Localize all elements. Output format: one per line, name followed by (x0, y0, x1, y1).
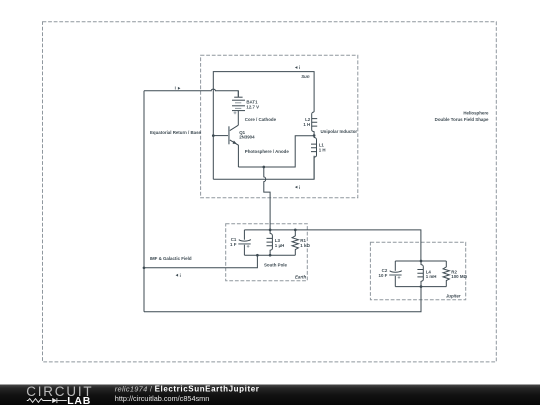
node: IMF tap junction (143, 266, 146, 269)
svg-text:relic1974 / ElectricSunEarthJu: relic1974 / ElectricSunEarthJupiter (115, 384, 260, 393)
wire: left tall return (143, 91, 145, 312)
wire: base feed (213, 135, 228, 137)
wire: IMF & galactic field (144, 255, 257, 268)
wire: bottom loop to Jupiter (144, 287, 421, 312)
wire: top external with hop over sun loop (144, 89, 238, 97)
node: jupiter top junction (420, 260, 423, 263)
inductor L3 (267, 230, 285, 255)
wire: sun loop bottom (213, 156, 314, 180)
svg-text:2N3904: 2N3904 (239, 135, 255, 140)
logo resistor-diode glyph (27, 398, 67, 403)
svg-text:Sun: Sun (301, 74, 310, 79)
svg-text:1 μH: 1 μH (275, 243, 285, 248)
node: unipolar tap junction (313, 134, 316, 137)
svg-text:i: i (180, 273, 181, 278)
svg-text:i: i (299, 185, 300, 190)
node: earth top incoming junction (269, 229, 272, 232)
node: anode branch junction (262, 166, 265, 169)
Earth dashed box (226, 224, 308, 281)
Earth bottom rail (244, 254, 295, 256)
wire: sun loop left+top+right (213, 72, 314, 180)
svg-text:IMF & Galactic Field: IMF & Galactic Field (150, 256, 192, 261)
svg-text:Jupiter: Jupiter (446, 293, 461, 298)
svg-text:Equatorial Return / Base: Equatorial Return / Base (150, 130, 202, 135)
svg-text:Heliosphere: Heliosphere (463, 111, 489, 116)
svg-text:10 F: 10 F (379, 273, 388, 278)
resistor R1 (292, 230, 310, 255)
Jupiter top rail (395, 260, 446, 262)
transistor Q1 2N3904 (229, 125, 255, 167)
node: jupiter bottom junction (420, 285, 423, 288)
svg-text:South Pole: South Pole (264, 263, 287, 268)
wire: photosphere/anode run to unipolar tap (238, 136, 313, 167)
resistor R2 (443, 261, 467, 287)
inductor L1 (311, 136, 326, 180)
label: < i current arrow sun bottom (295, 185, 300, 190)
svg-text:i: i (175, 86, 176, 91)
inductor L4 (417, 261, 436, 287)
node: earth bottom IMF junction (256, 254, 259, 257)
node: base junction (212, 134, 215, 137)
node: earth bottom L3 junction (269, 254, 272, 257)
svg-text:Unipolar Inductor: Unipolar Inductor (321, 129, 358, 134)
node: earth top R1 junction (294, 229, 297, 232)
label: i > current arrow top (175, 86, 181, 91)
label: < i current arrow sun top (295, 65, 300, 70)
svg-text:1 H: 1 H (303, 122, 310, 127)
label: < i current arrow left (176, 273, 181, 278)
svg-text:Photosphere / Anode: Photosphere / Anode (245, 149, 290, 154)
svg-text:1 kΩ: 1 kΩ (300, 243, 310, 248)
Sun dashed box (201, 55, 358, 198)
svg-text:Earth: Earth (295, 274, 307, 279)
svg-text:Double Torus Field Shape: Double Torus Field Shape (435, 117, 489, 122)
svg-text:1 H: 1 H (319, 148, 326, 153)
outer heliosphere dashed boundary (43, 22, 497, 362)
capacitor C1 (230, 230, 251, 255)
svg-text:http://circuitlab.com/c854smn: http://circuitlab.com/c854smn (115, 394, 210, 403)
svg-text:1 F: 1 F (230, 242, 237, 247)
Earth top rail extending to Jupiter (244, 230, 421, 261)
svg-text:100 MΩ: 100 MΩ (451, 274, 467, 279)
inductor L2 (303, 112, 317, 134)
svg-text:Core / Cathode: Core / Cathode (245, 117, 277, 122)
svg-text:i: i (299, 65, 300, 70)
Jupiter bottom rail (395, 286, 446, 288)
svg-text:12.7 V: 12.7 V (246, 105, 259, 110)
capacitor C2 (379, 261, 402, 287)
svg-text:LAB: LAB (67, 395, 91, 405)
svg-text:1 mH: 1 mH (426, 274, 437, 279)
wire: branch down to Earth with hop (264, 167, 270, 230)
battery BAT1 (232, 91, 259, 126)
Jupiter dashed box (370, 242, 465, 299)
